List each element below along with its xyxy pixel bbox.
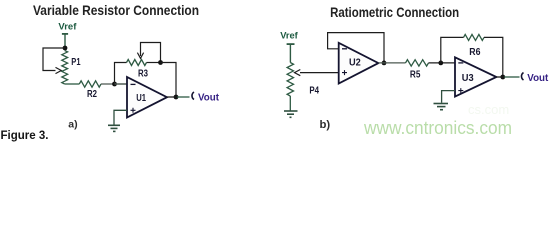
svg-text:Vout: Vout bbox=[198, 92, 220, 103]
svg-text:P1: P1 bbox=[71, 57, 81, 68]
ground (P4) bbox=[284, 111, 298, 117]
node: U1 output bbox=[174, 95, 179, 100]
node: R3 wiper junction bbox=[158, 60, 163, 65]
wire: R2 to inverting node bbox=[101, 83, 127, 85]
wire: P4 bottom to ground bbox=[289, 96, 291, 111]
svg-text:R3: R3 bbox=[138, 68, 148, 79]
op-amp U3 bbox=[455, 57, 496, 96]
R3 wiper arrowhead bbox=[137, 53, 143, 59]
ground (U3) bbox=[434, 104, 449, 110]
node: U3 output bbox=[500, 75, 505, 80]
wire: feedback riser to R3 bbox=[115, 63, 127, 85]
wire: node to U1 inverting input bbox=[115, 83, 128, 85]
svg-text:www.cntronics.com: www.cntronics.com bbox=[363, 118, 512, 138]
svg-text:Vref: Vref bbox=[58, 22, 77, 33]
svg-text:Vout: Vout bbox=[527, 73, 549, 84]
potentiometer P4 bbox=[287, 63, 293, 97]
wire: P1 bottom to R2 bbox=[65, 83, 80, 85]
wire: output to port bbox=[167, 96, 177, 98]
svg-text:R6: R6 bbox=[469, 47, 481, 58]
resistor R5 bbox=[406, 60, 429, 66]
svg-text:Ratiometric Connection: Ratiometric Connection bbox=[330, 4, 459, 20]
wire: R6 right to U3 output bbox=[484, 37, 503, 77]
potentiometer P1 bbox=[62, 51, 68, 85]
wire: feedback to output node bbox=[161, 63, 177, 97]
P4 wiper arrowhead bbox=[295, 70, 301, 76]
svg-text:b): b) bbox=[320, 119, 331, 131]
resistor R6 bbox=[464, 34, 485, 40]
wire: U2 output to R5 bbox=[378, 62, 405, 64]
svg-text:cs.com: cs.com bbox=[468, 102, 509, 117]
svg-text:a): a) bbox=[68, 118, 77, 130]
node: Vref / P1 top junction bbox=[63, 46, 68, 51]
svg-text:R5: R5 bbox=[410, 70, 421, 81]
ground (left) bbox=[108, 125, 120, 131]
svg-text:Variable Resistor Connection: Variable Resistor Connection bbox=[33, 2, 199, 18]
wire: U2 feedback loop bbox=[328, 33, 384, 63]
R3 wiper loop bbox=[141, 43, 161, 63]
op-amp U1 bbox=[127, 77, 167, 118]
resistor R2 bbox=[79, 81, 101, 87]
wire: U3 output to port bbox=[496, 76, 504, 78]
svg-text:U2: U2 bbox=[349, 58, 361, 69]
P1 wiper arrowhead bbox=[56, 67, 62, 73]
node: U3 inverting junction bbox=[438, 61, 443, 66]
trimmer R3 bbox=[127, 60, 147, 66]
wire: U1 + input to ground bbox=[114, 110, 127, 124]
Vref terminal (right) bbox=[287, 44, 295, 62]
svg-text:U3: U3 bbox=[462, 73, 474, 84]
wire: P1 wiper loop bbox=[43, 48, 65, 71]
svg-text:U1: U1 bbox=[136, 93, 146, 104]
svg-text:Vref: Vref bbox=[280, 30, 298, 40]
wire: R5 to U3 inverting input bbox=[429, 62, 456, 64]
svg-text:P4: P4 bbox=[309, 86, 319, 97]
wire: R3 right to output branch bbox=[147, 62, 161, 64]
wire: P4 wiper to U2 + input bbox=[300, 72, 339, 74]
node: U2 output bbox=[382, 61, 387, 66]
svg-text:R2: R2 bbox=[87, 89, 97, 100]
wire: U3 + input to ground bbox=[442, 91, 455, 103]
port Vout (right) bbox=[521, 73, 523, 80]
Vref terminal (left) bbox=[62, 34, 68, 48]
port Vout (left) bbox=[192, 92, 194, 99]
svg-text:Figure 3.: Figure 3. bbox=[1, 128, 49, 142]
op-amp U2 bbox=[339, 43, 379, 84]
node: U1 inverting input junction bbox=[112, 82, 117, 87]
wire: R6 feedback left riser bbox=[441, 37, 464, 63]
